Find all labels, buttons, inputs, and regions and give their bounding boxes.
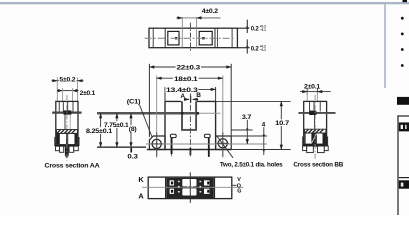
lead stubs under body xyxy=(171,138,210,157)
bottom view dark center block xyxy=(166,177,215,199)
hole centerline horizontal xyxy=(146,142,267,145)
AA caption xyxy=(45,163,101,170)
main case outline xyxy=(147,101,231,149)
AA hatched band xyxy=(57,130,78,134)
pin label O xyxy=(237,183,241,189)
left datum line xyxy=(97,146,146,148)
top view vertical centerline xyxy=(189,23,191,53)
svg-text:B: B xyxy=(196,92,201,99)
centerline nub above case xyxy=(190,96,192,103)
svg-text:22±0.3: 22±0.3 xyxy=(177,65,201,72)
hole centerline vertical right xyxy=(222,76,224,158)
dimension (8) xyxy=(128,113,137,147)
svg-text:2±0.1: 2±0.1 xyxy=(304,83,321,90)
top view horizontal centerline xyxy=(145,37,234,39)
AA dimension 5±0.2 xyxy=(52,76,84,102)
pin label K xyxy=(138,175,144,184)
top view window right xyxy=(199,31,212,45)
svg-text:3.7: 3.7 xyxy=(242,114,252,121)
svg-text:Two, 2.5±0.1 dia. holes: Two, 2.5±0.1 dia. holes xyxy=(220,162,283,169)
terminal windows right xyxy=(204,180,210,194)
dimension 4±0.2 xyxy=(176,8,220,18)
AA optical axis xyxy=(52,110,81,114)
BB extension lines xyxy=(307,92,317,111)
tick to pin O xyxy=(233,184,237,186)
BB centerline xyxy=(314,95,316,160)
dimension 0.2 bottom xyxy=(246,39,267,53)
top view body outline xyxy=(149,28,237,48)
AA body outline xyxy=(56,101,78,145)
extension line left edge (22 dim) xyxy=(148,64,150,137)
small slot window right xyxy=(204,134,210,137)
BB terminals below xyxy=(303,146,329,153)
dimension 22±0.3 xyxy=(149,63,231,71)
small slot window left xyxy=(170,134,176,137)
BB bottom wall xyxy=(303,144,327,146)
extension line right edge (22 dim) xyxy=(230,64,232,136)
svg-text:8.25±0.1: 8.25±0.1 xyxy=(86,128,113,135)
BB dimension 2±0.1 xyxy=(300,83,331,95)
svg-text:4±0.2: 4±0.2 xyxy=(202,8,219,15)
bottom view horizontal centerline xyxy=(142,186,244,188)
dimension 8.25±0.1 xyxy=(86,113,113,147)
hole centerline vertical left xyxy=(156,76,158,158)
sliver windows xyxy=(178,181,201,193)
AA centerline xyxy=(66,95,68,161)
AA lower cavity pins xyxy=(56,133,77,144)
BB optical axis xyxy=(299,111,336,115)
pin label V xyxy=(237,177,241,183)
AA base side steps xyxy=(55,137,79,146)
left mounting hole xyxy=(152,139,161,148)
BB body outline xyxy=(304,101,327,146)
svg-text:7.75±0.1: 7.75±0.1 xyxy=(104,122,129,129)
right mounting hole xyxy=(218,139,227,148)
top view right extension lines xyxy=(237,28,249,48)
section label A xyxy=(180,93,189,100)
svg-text:Cross section AA: Cross section AA xyxy=(45,163,101,170)
svg-text:G: G xyxy=(237,189,241,195)
svg-text:(8): (8) xyxy=(129,126,137,133)
svg-text:−0.1: −0.1 xyxy=(260,48,267,52)
leader Two 2.5 dia holes xyxy=(217,136,283,168)
section label B xyxy=(193,92,202,99)
top view window left xyxy=(168,31,179,45)
svg-text:Cross section BB: Cross section BB xyxy=(293,161,343,168)
svg-text:4: 4 xyxy=(262,122,266,129)
AA bottom wall xyxy=(55,144,78,146)
bottom view outline xyxy=(148,177,232,199)
bottom view vertical centerline xyxy=(189,172,191,203)
top view slot extension lines xyxy=(182,17,196,48)
dimension 18±0.1 xyxy=(157,75,223,83)
AA extension lines xyxy=(63,88,73,112)
terminal windows left xyxy=(170,180,174,194)
svg-text:V: V xyxy=(237,177,241,183)
dimension 0.2 top xyxy=(246,20,267,33)
AA terminals below xyxy=(55,146,78,158)
dimension 4 xyxy=(262,122,266,155)
svg-text:10.7: 10.7 xyxy=(275,120,289,127)
right tab xyxy=(216,136,232,150)
section heading square right edge xyxy=(397,97,409,105)
svg-text:2±0.1: 2±0.1 xyxy=(80,90,96,97)
BB lower cavity pins xyxy=(304,133,326,144)
svg-text:5±0.2: 5±0.2 xyxy=(59,77,76,84)
svg-text:18±0.1: 18±0.1 xyxy=(174,76,198,83)
optical axis line xyxy=(97,112,221,115)
svg-text:A: A xyxy=(138,192,144,201)
pin label A xyxy=(138,192,144,201)
main vertical centerline xyxy=(189,93,191,157)
dimension 13.4±0.3 xyxy=(165,86,216,94)
bullet list right edge xyxy=(401,0,407,67)
table fragment right edge xyxy=(397,115,409,215)
svg-text:−0.1: −0.1 xyxy=(260,28,267,32)
AA dimension 2±0.1 xyxy=(57,90,96,97)
page top rule xyxy=(0,2,409,5)
extension lines case (13.4 dim) xyxy=(165,87,216,101)
BB caption xyxy=(293,161,343,168)
svg-text:0.3: 0.3 xyxy=(127,153,138,160)
dimension 10.7 xyxy=(275,101,290,149)
right extension lines xyxy=(216,101,291,149)
dimension 7.75±0.1 xyxy=(104,113,130,147)
svg-text:0.2: 0.2 xyxy=(251,47,260,53)
svg-text:0.2: 0.2 xyxy=(251,26,260,32)
svg-text:K: K xyxy=(138,175,144,184)
center windows xyxy=(182,179,196,196)
label (C1) with leader xyxy=(127,98,152,137)
left tab with chamfer xyxy=(149,136,165,150)
svg-text:(C1): (C1) xyxy=(127,98,141,105)
BB hatched band xyxy=(305,129,326,133)
dimension 0.3 lead xyxy=(127,148,138,161)
dimension 3.7 xyxy=(242,114,252,144)
right sidebar rule xyxy=(384,3,386,88)
BB base side steps xyxy=(303,137,328,147)
slot walls xyxy=(181,101,197,130)
pin label G xyxy=(237,189,241,195)
